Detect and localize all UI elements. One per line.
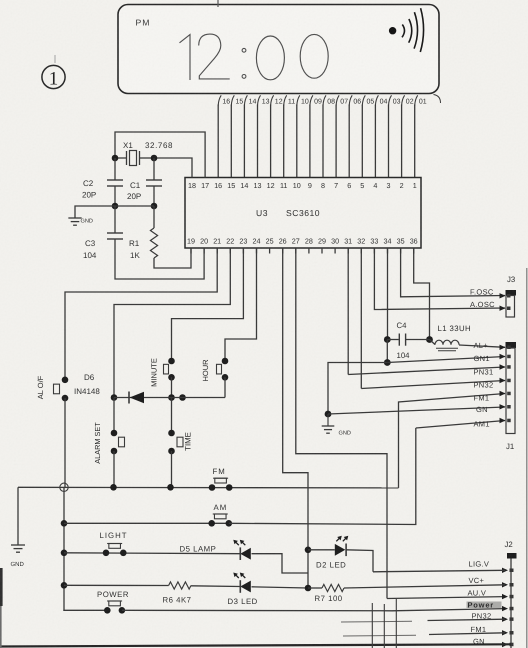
sheet number badge 1 <box>42 65 65 88</box>
wire crystal-left node up and over to pin 17 <box>115 132 205 178</box>
node R7 branch <box>305 585 312 592</box>
node AM row <box>61 520 68 527</box>
wire D2 to LIG.V <box>346 550 373 572</box>
wire L1 to AL+ <box>459 345 505 347</box>
wire pin 22 to alarm-set column <box>114 248 230 398</box>
alarm speaker icon <box>389 27 396 34</box>
wire PN31 row <box>348 367 505 375</box>
node C4 left <box>384 336 391 343</box>
scan edge line right <box>526 268 528 648</box>
J2 pin FM1 arrow <box>502 630 508 635</box>
wire ground column below junction <box>63 487 65 611</box>
wire bottom drop c <box>395 599 397 648</box>
J1 pin GN1 arrow <box>500 354 506 359</box>
lamp LED D3 <box>240 581 251 593</box>
LCD pin header labels 16..01 <box>415 95 418 105</box>
wire TIME to ground rail <box>171 451 173 487</box>
pushbutton TIME <box>168 430 175 437</box>
ground symbol (bottom left) <box>11 544 25 546</box>
LCD digit 2 <box>199 34 230 79</box>
wire pin 33 to A.OSC <box>374 248 505 310</box>
wire POWER row to J2 Power <box>122 609 505 611</box>
wire pin 36 to C4 right <box>414 248 430 340</box>
wire R6 to D3 <box>191 585 240 588</box>
ground symbol (mid) <box>327 414 329 426</box>
ground symbol (oscillator) <box>68 217 81 219</box>
node crystal right <box>151 155 158 162</box>
wire R6 row <box>64 584 169 586</box>
node LIGHT row <box>61 550 68 557</box>
wire crystal-right node to pin 18 <box>154 158 192 178</box>
wire GN1 row <box>387 357 505 363</box>
scan edge mark left <box>0 568 3 606</box>
wire PN32 row <box>361 381 505 389</box>
lamp LED D5 <box>240 548 251 560</box>
J2 pin GN arrow <box>502 642 508 647</box>
wire AL O/F to ground rail <box>64 398 66 487</box>
connector J1 body <box>506 342 517 348</box>
J1 pin PN32 arrow <box>500 378 506 383</box>
wire D3 to R7 node <box>252 587 309 588</box>
J1 pin FM1 arrow <box>500 391 506 396</box>
wire J2 GN row <box>0 644 511 646</box>
J2 pin LIG.V arrow <box>502 568 508 573</box>
wire pin 32 to PN32 <box>360 248 362 389</box>
J3 pin F.OSC arrow <box>500 293 506 298</box>
scan mark top <box>217 0 219 7</box>
wire AM row to AM1 riser <box>229 428 416 525</box>
wire R1 bottom to pin 19 <box>154 248 191 268</box>
node crystal left <box>112 155 119 162</box>
wire bottom drop a <box>371 603 373 648</box>
wire pin 34 to C4 <box>387 248 389 340</box>
wire bottom drop b <box>383 604 385 648</box>
wire pin 23 to MINUTE switch <box>172 248 244 361</box>
node C4 right <box>426 336 433 343</box>
wire VC+ row <box>344 585 505 588</box>
wire C1 to node <box>153 186 155 206</box>
wire pin 26 to LED column <box>283 248 308 588</box>
node alarm-set at rail <box>110 484 117 491</box>
resistor R6 <box>169 582 191 589</box>
LED D2 <box>335 544 346 556</box>
junction circle common rail <box>60 483 68 491</box>
J1 pin AM1 arrow <box>500 418 506 423</box>
wire pin 27 to AU.V <box>296 248 387 599</box>
pushbutton LIGHT <box>103 550 110 557</box>
node lamp row <box>61 582 68 589</box>
wire rail left drop to ground <box>17 487 19 545</box>
J2 pin AU.V arrow <box>502 594 508 599</box>
wire AM1 row <box>416 421 505 429</box>
node diode rail <box>179 394 186 401</box>
J1 pin GN arrow <box>500 404 506 409</box>
wire C4 left to GN1 node <box>386 340 388 363</box>
J2 pin PN32 arrow <box>502 617 508 622</box>
wire alarm column to switch <box>113 398 115 434</box>
wire C3 bottom to pin 20 <box>115 239 204 279</box>
resistor R7 <box>322 584 344 591</box>
wire X1-right down to C1 <box>153 158 155 180</box>
wire AM row <box>64 522 229 524</box>
inductor L1 <box>430 340 436 345</box>
J2 pin Power arrow <box>502 606 508 611</box>
wire HOUR bottom to diode rail <box>224 377 226 397</box>
node mid ground <box>325 411 332 418</box>
LCD digit 1 <box>180 35 191 80</box>
node C1 bottom <box>151 203 158 210</box>
wire node to C3 <box>114 206 116 233</box>
pushbutton MINUTE <box>168 358 175 365</box>
U3 bottom pin stubs <box>190 248 192 254</box>
wire J2 FM1 stub <box>343 634 416 637</box>
wire GN1 to mid ground <box>328 363 387 415</box>
node MINUTE bottom <box>168 394 175 401</box>
J1 pin AL+ arrow <box>500 345 506 350</box>
wire C2 to node <box>114 186 116 206</box>
connector J2 body <box>507 553 517 559</box>
connector J3 body <box>506 290 517 296</box>
J2 pin VC+ arrow <box>502 582 508 587</box>
wire AU.V row <box>387 597 505 599</box>
capacitor C2 <box>107 179 123 181</box>
wire common rail (FM row) <box>18 486 399 489</box>
node D2 branch <box>305 547 312 554</box>
wire D6 rail <box>114 397 225 399</box>
wire osc ground rail <box>75 206 154 218</box>
node GN1 <box>384 359 391 366</box>
pushbutton AM <box>208 520 215 527</box>
wire R7 node <box>308 587 322 589</box>
node C2 bottom <box>112 203 119 210</box>
wire J2 FM1 row <box>429 633 505 635</box>
J1 pin PN31 arrow <box>500 364 506 369</box>
LCD digit 0 (tens of minutes) <box>256 36 284 80</box>
capacitor C3 <box>107 232 123 234</box>
resistor R1 <box>150 228 157 258</box>
wire pin 31 to PN31 <box>347 248 349 375</box>
LCD pin header end bracket <box>434 95 441 104</box>
LCD display module <box>118 5 439 94</box>
wire X1-left down to C2 <box>114 158 116 180</box>
wire MINUTE to diode rail <box>171 377 173 397</box>
wire FM1 riser and row <box>399 394 506 488</box>
wires LCD to chip pins 16..1 <box>414 105 416 178</box>
LCD colon <box>242 48 246 52</box>
wire mid ground to GN row <box>328 407 505 414</box>
J3 pin A.OSC arrow <box>500 306 506 311</box>
LCD digit 0 (minutes) <box>300 34 328 78</box>
wire J2 PN32 row <box>428 619 506 620</box>
wire J2 PN32 stub <box>341 620 412 623</box>
pushbutton AL O/F <box>62 377 69 384</box>
capacitor C4 <box>387 339 399 341</box>
wire D2 branch <box>308 549 335 551</box>
wire pin 24 to HOUR switch <box>225 248 257 361</box>
IC U3 SC3610 body <box>185 178 421 249</box>
wire LIG.V row <box>373 570 505 572</box>
capacitor C1 <box>146 179 162 181</box>
pushbutton HOUR <box>222 358 229 365</box>
wire node to R1 <box>153 206 155 228</box>
wire D5 to column jog <box>252 554 309 573</box>
wire pin 21 to AL O/F switch <box>65 248 217 380</box>
wire LIGHT row <box>64 552 240 555</box>
crystal X1 32.768 <box>115 157 126 159</box>
wire diode rail column down <box>171 398 173 434</box>
node time at rail <box>167 484 174 491</box>
wire pin 35 to F.OSC <box>401 248 505 297</box>
pushbutton POWER <box>104 607 111 614</box>
diode D6 IN4148 <box>130 392 145 404</box>
wire POWER row from ground column <box>64 609 107 612</box>
wire ALARM SET to ground rail <box>113 451 115 487</box>
node D6 anode <box>111 394 118 401</box>
pushbutton FM <box>209 484 216 491</box>
pushbutton ALARM SET <box>111 430 118 437</box>
